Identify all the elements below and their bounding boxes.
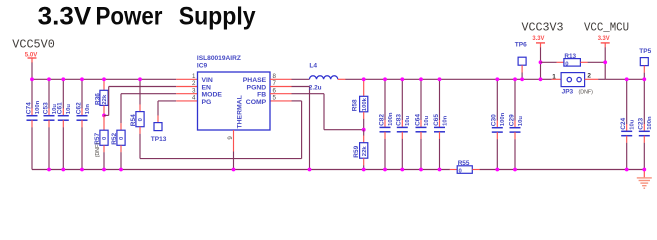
pin number 4 <box>192 95 196 102</box>
capacitor C74 100n <box>25 79 40 169</box>
svg-text:4: 4 <box>192 95 196 102</box>
capacitor C61 10u <box>57 79 72 169</box>
pin name PGND <box>247 84 267 91</box>
svg-text:C23: C23 <box>638 117 645 129</box>
node EN junction dot <box>102 114 106 118</box>
svg-text:C82: C82 <box>378 114 385 126</box>
capacitor C65 10n <box>433 79 448 169</box>
svg-text:10u: 10u <box>405 115 411 126</box>
svg-text:COMP: COMP <box>246 99 267 106</box>
svg-text:R59: R59 <box>353 145 360 157</box>
pin number 1 <box>192 73 196 80</box>
svg-text:VCC3V3: VCC3V3 <box>522 22 564 35</box>
svg-text:2.2u: 2.2u <box>309 84 322 91</box>
power symbol VCC3V3 voltage label <box>532 35 545 42</box>
node FB junction dot <box>362 128 366 132</box>
power symbol VCC_MCU label <box>584 22 629 35</box>
svg-text:R54: R54 <box>130 114 137 126</box>
svg-text:C83: C83 <box>396 114 403 126</box>
power symbol VCC3V3 bar <box>536 43 545 48</box>
svg-text:C65: C65 <box>433 114 440 126</box>
capacitor C62 10n <box>75 79 90 169</box>
pin stub IC9 pin8 PHASE <box>270 78 292 80</box>
wire FB net <box>292 94 364 130</box>
svg-text:C30: C30 <box>491 114 498 126</box>
svg-text:EN: EN <box>202 84 212 91</box>
pin name FB <box>257 92 266 99</box>
wire 3.3V output rail <box>345 78 540 80</box>
pin name THERMAL <box>237 95 244 128</box>
svg-text:22k: 22k <box>362 146 368 157</box>
svg-text:R36: R36 <box>94 93 101 105</box>
wire EN net <box>104 87 176 116</box>
svg-text:L4: L4 <box>309 62 317 69</box>
svg-text:(DNF): (DNF) <box>95 143 101 158</box>
svg-text:3.3V: 3.3V <box>38 2 92 30</box>
svg-text:22k: 22k <box>102 94 108 105</box>
wire JP3 pin2 to VCC_MCU <box>585 78 606 80</box>
pin name MODE <box>202 92 223 99</box>
title text <box>38 2 256 30</box>
svg-text:PG: PG <box>202 99 212 106</box>
svg-text:10u: 10u <box>424 115 430 126</box>
svg-text:Supply: Supply <box>179 2 256 30</box>
capacitor C23 100n <box>638 79 653 169</box>
svg-text:VCC5V0: VCC5V0 <box>12 38 55 51</box>
svg-text:10n: 10n <box>85 104 91 115</box>
wire VCC3V3 drop <box>540 47 542 79</box>
pin stub IC9 pin7 PGND <box>270 86 292 88</box>
svg-text:C24: C24 <box>620 117 627 129</box>
svg-text:C29: C29 <box>508 114 515 126</box>
svg-text:VIN: VIN <box>202 77 213 84</box>
svg-text:10u: 10u <box>630 119 636 130</box>
svg-text:1: 1 <box>192 73 196 80</box>
svg-text:VCC_MCU: VCC_MCU <box>584 22 629 35</box>
svg-text:3.3V: 3.3V <box>598 35 611 42</box>
svg-text:2: 2 <box>587 73 591 80</box>
resistor R52 0 <box>111 123 125 169</box>
testpoint TP6 <box>515 41 527 79</box>
svg-text:IC9: IC9 <box>197 63 208 70</box>
svg-text:R13: R13 <box>564 53 576 60</box>
wire ground rail left <box>32 169 450 171</box>
wire ground rail right <box>480 169 645 171</box>
capacitor C83 10u <box>396 79 411 169</box>
svg-text:C74: C74 <box>25 102 32 114</box>
svg-text:C62: C62 <box>75 102 82 114</box>
pin stub IC9 pin5 COMP <box>270 100 292 102</box>
wire VCC5V0 drop to rail <box>31 63 33 80</box>
capacitor C24 10u <box>620 79 635 169</box>
svg-text:ISL80019AIRZ: ISL80019AIRZ <box>197 55 241 62</box>
resistor R36 22k <box>94 79 108 115</box>
svg-text:MODE: MODE <box>202 92 223 99</box>
node VCC3V3 R13 branch dot <box>539 60 543 64</box>
power symbol VCC5V0 voltage label <box>25 52 38 59</box>
svg-text:C53: C53 <box>42 102 49 114</box>
pin number 7 <box>273 80 277 87</box>
svg-text:10n: 10n <box>442 115 448 126</box>
pin number 5 <box>273 95 277 102</box>
power symbol VCC5V0 label <box>12 38 55 51</box>
pin number 3 <box>192 87 196 94</box>
svg-text:R58: R58 <box>352 99 359 111</box>
wire 5V top rail <box>32 78 176 80</box>
pin number 6 <box>273 87 277 94</box>
svg-text:R52: R52 <box>111 132 118 144</box>
wire PG net <box>158 101 176 116</box>
svg-text:0: 0 <box>102 136 108 140</box>
pin number 8 <box>273 73 277 80</box>
pin stub IC9 pin3 MODE <box>176 93 197 95</box>
pin stub IC9 pin2 EN <box>176 86 197 88</box>
svg-text:C61: C61 <box>57 102 64 114</box>
resistor R59 22k <box>353 130 368 170</box>
testpoint TP5 <box>639 48 651 79</box>
label IC9 <box>197 63 208 70</box>
pin number JP3-2 <box>587 73 591 80</box>
svg-text:3: 3 <box>192 87 196 94</box>
pin name PHASE <box>243 77 267 84</box>
svg-text:100n: 100n <box>35 100 41 114</box>
svg-text:TP5: TP5 <box>639 48 651 55</box>
svg-text:PGND: PGND <box>247 84 267 91</box>
pin stub IC9 pin4 PG <box>176 100 197 102</box>
resistor R57 0 (DNF) <box>94 115 108 169</box>
jumper JP3 (DNF) <box>561 73 593 96</box>
inductor L4 2.2u <box>309 62 338 91</box>
capacitor C30 100n <box>491 79 506 169</box>
svg-text:0: 0 <box>138 117 144 121</box>
pin name COMP <box>246 99 267 106</box>
resistor R58 100k <box>352 79 368 129</box>
svg-text:(DNF): (DNF) <box>579 90 594 96</box>
pin name EN <box>202 84 212 91</box>
pin stub IC9 pin1 VIN <box>176 78 197 80</box>
power symbol VCC_MCU bar <box>601 43 610 48</box>
svg-text:100n: 100n <box>647 116 653 130</box>
svg-text:100n: 100n <box>388 112 394 126</box>
capacitor C29 10u <box>508 79 523 169</box>
junction dots bottom rail <box>47 168 646 172</box>
svg-text:Power: Power <box>96 2 163 30</box>
svg-text:TP13: TP13 <box>151 136 167 143</box>
pin number JP3-1 <box>552 73 556 80</box>
power symbol VCC3V3 label <box>522 22 564 35</box>
wire PHASE to L4 <box>292 78 310 80</box>
junction dots top rail <box>30 77 646 81</box>
wire PGND net <box>292 87 310 170</box>
svg-text:10u: 10u <box>518 116 524 127</box>
resistor R54 0 <box>130 79 144 134</box>
junction dot R13 right <box>603 60 607 64</box>
pin number 9 <box>227 136 234 140</box>
svg-text:5: 5 <box>273 95 277 102</box>
power symbol VCC5V0 bar <box>28 58 37 63</box>
wire rail to JP3 pin1 <box>541 78 562 80</box>
svg-text:JP3: JP3 <box>562 89 574 96</box>
label ISL80019AIRZ <box>197 55 241 62</box>
svg-text:THERMAL: THERMAL <box>237 95 244 128</box>
pin stub IC9 pin6 FB <box>270 93 292 95</box>
svg-text:0: 0 <box>119 136 125 140</box>
wire MODE net <box>121 94 176 124</box>
svg-text:100n: 100n <box>500 112 506 126</box>
pin number 2 <box>192 80 196 87</box>
testpoint TP13 <box>151 115 167 142</box>
ground <box>637 170 652 189</box>
svg-text:2: 2 <box>192 80 196 87</box>
svg-text:FB: FB <box>257 92 266 99</box>
capacitor C82 100n <box>378 79 393 169</box>
pin stub IC9 pin9 THERMAL <box>233 130 235 170</box>
wire VCC_MCU drop <box>604 47 606 79</box>
svg-text:R55: R55 <box>458 160 470 167</box>
svg-text:10u: 10u <box>66 104 72 115</box>
svg-text:100k: 100k <box>362 97 368 111</box>
resistor R55 0 <box>450 160 480 174</box>
svg-text:1: 1 <box>552 73 556 80</box>
capacitor C53 10u <box>42 79 57 169</box>
wire COMP net <box>140 101 302 159</box>
svg-text:TP6: TP6 <box>515 41 527 48</box>
svg-text:PHASE: PHASE <box>243 77 267 84</box>
power symbol VCC_MCU voltage label <box>598 35 611 42</box>
resistor R13 0 <box>541 53 606 67</box>
pin stub L4 right <box>338 78 346 80</box>
op-amp U1 regulator IC9 ISL80019AIRZ box <box>198 72 271 130</box>
pin name VIN <box>202 77 213 84</box>
capacitor C64 10u <box>414 79 429 169</box>
pin name PG <box>202 99 212 106</box>
svg-text:C64: C64 <box>414 114 421 126</box>
wire VCC_MCU rail <box>605 78 644 80</box>
svg-text:9: 9 <box>227 136 234 140</box>
svg-text:3.3V: 3.3V <box>532 35 545 42</box>
